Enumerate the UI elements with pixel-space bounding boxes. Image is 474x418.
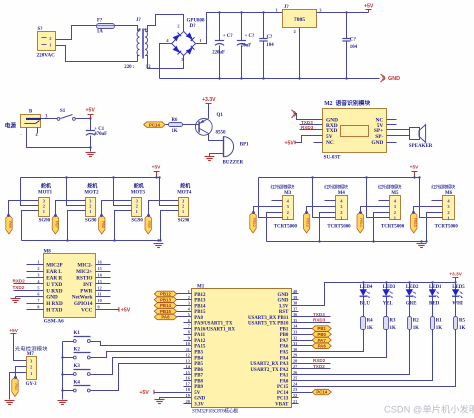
- connector S? 220VAC input: [37, 27, 56, 58]
- svg-text:16: 16: [186, 376, 190, 381]
- wire MOT4 pin3 signal to tag: [149, 201, 179, 216]
- svg-text:MIC2+: MIC2+: [76, 269, 92, 275]
- svg-text:CSDN @单片机小发明: CSDN @单片机小发明: [384, 404, 474, 415]
- bridge rectifier D? GPU808: [166, 19, 205, 63]
- svg-text:LED5: LED5: [452, 285, 465, 290]
- wire K1 to M1: [91, 342, 192, 346]
- power +5V (after switch): [86, 107, 96, 118]
- svg-text:220 :: 220 :: [124, 65, 134, 70]
- net tag PB12 (M1 pin 1): [154, 291, 191, 296]
- svg-text:C?: C?: [350, 38, 356, 43]
- net tag PB1 (M1 pin 34): [292, 326, 332, 331]
- svg-text:1: 1: [136, 209, 138, 214]
- svg-text:M6: M6: [445, 191, 453, 196]
- wire M6 pin4 stub: [432, 200, 443, 202]
- svg-text:3.3V: 3.3V: [279, 304, 289, 309]
- wire LED4 cathode to M1: [292, 330, 364, 352]
- svg-text:10: 10: [186, 341, 190, 346]
- svg-text:1: 1: [37, 260, 39, 265]
- wire power box stub: [37, 128, 39, 134]
- svg-text:PB8: PB8: [194, 379, 203, 384]
- svg-text:9: 9: [188, 335, 190, 340]
- svg-text:舵机: 舵机: [180, 183, 190, 190]
- svg-text:PB0: PB0: [280, 333, 289, 338]
- wire LED5 cathode to M1: [292, 330, 456, 387]
- wire M3 pin3 signal to tag: [254, 207, 283, 213]
- transistor Q1 8550: [195, 113, 226, 135]
- net tag PB9 (servo MOT4): [145, 214, 151, 234]
- svg-text:18: 18: [186, 387, 190, 392]
- svg-text:SG90: SG90: [85, 219, 97, 224]
- svg-text:RST: RST: [279, 310, 289, 315]
- svg-text:PWR: PWR: [80, 288, 92, 294]
- ground (M7): [5, 401, 15, 405]
- wire M3 pin1 to +5V rail: [259, 178, 283, 218]
- node DC+ junction at C 10uF: [240, 11, 242, 13]
- svg-text:电源: 电源: [5, 122, 17, 130]
- svg-text:GPU808: GPU808: [187, 19, 206, 24]
- svg-text:PA0: PA0: [280, 379, 289, 384]
- svg-text:SPEAKER: SPEAKER: [409, 144, 433, 149]
- wire M8 pin 14 (RSTIO): [96, 273, 111, 278]
- svg-text:MIC2-: MIC2-: [77, 263, 92, 269]
- wire M4 pin2 to ground rail: [318, 213, 335, 243]
- svg-text:PA11: PA11: [194, 333, 205, 338]
- wire net TXD2 (M1 USART2_TX): [292, 364, 331, 369]
- svg-text:USART2_TX PA2: USART2_TX PA2: [250, 368, 288, 373]
- svg-text:K2: K2: [74, 347, 81, 352]
- svg-text:J?: J?: [136, 18, 141, 23]
- net tag PA7 (M1 pin 32): [292, 337, 332, 342]
- svg-text:SG90: SG90: [131, 219, 143, 224]
- svg-text:U TXD: U TXD: [46, 282, 62, 288]
- wire transformer primary bottom lead: [138, 56, 140, 62]
- svg-text:M4: M4: [338, 191, 346, 196]
- wire MOT3 pin3 signal to tag: [102, 201, 132, 216]
- wire M2 SP+ to speaker: [387, 129, 410, 131]
- wire transformer secondary top to bridge AC (pin 2): [146, 15, 184, 32]
- wire MOT1 pin1 to ground rail: [22, 211, 39, 241]
- ground (IR rail): [417, 240, 427, 247]
- svg-text:LED1: LED1: [429, 285, 442, 290]
- wire M2 NC stub (left): [314, 142, 323, 144]
- resistor R4 1K: [361, 317, 374, 332]
- svg-text:GND: GND: [278, 293, 289, 298]
- svg-text:RXD2: RXD2: [313, 358, 326, 363]
- servo connector MOT4 SG90 舵机: [177, 183, 192, 224]
- push button K4: [63, 380, 91, 392]
- wire LED2 cathode to M1: [292, 330, 410, 375]
- svg-text:+5V: +5V: [86, 107, 96, 113]
- svg-text:PA10/USART1_RX: PA10/USART1_RX: [194, 327, 235, 332]
- wire M3 pin2 to ground rail: [267, 213, 283, 242]
- module M8 GSM-A6: [44, 250, 96, 325]
- LED LED4 BLU: [360, 283, 373, 317]
- wire M2 SP- to speaker: [387, 135, 410, 137]
- svg-text:1K: 1K: [367, 326, 373, 331]
- svg-text:舵机: 舵机: [41, 183, 51, 190]
- svg-text:1K: 1K: [413, 326, 419, 331]
- svg-text:BP1: BP1: [240, 143, 249, 148]
- svg-text:2: 2: [447, 210, 449, 215]
- wire net RXD3 (M1 USART3_TX): [292, 318, 331, 323]
- wire M8 pin 7 (H RXD): [27, 298, 44, 303]
- svg-text:GND: GND: [194, 397, 205, 402]
- wire M1 right pin stubs: [292, 294, 299, 404]
- wire power return: [27, 128, 91, 152]
- svg-text:C?: C?: [267, 35, 273, 40]
- svg-text:+3.3V: +3.3V: [449, 272, 462, 278]
- IR module M6 TCRT5000 红外避障模块: [431, 184, 458, 230]
- servo connector MOT3 SG90 舵机: [131, 183, 146, 224]
- svg-text:PB15: PB15: [194, 310, 206, 315]
- svg-text:PC14: PC14: [316, 390, 328, 395]
- svg-text:PC15: PC15: [277, 385, 289, 390]
- svg-text:PA9/USART1_TX: PA9/USART1_TX: [194, 322, 233, 327]
- ground (buttons): [58, 401, 68, 405]
- svg-text:+3.3V: +3.3V: [202, 97, 216, 103]
- wire fuse to transformer primary top: [115, 26, 140, 31]
- svg-text:红外避障模块: 红外避障模块: [271, 184, 295, 191]
- net tag PB15 (IR M6): [411, 211, 417, 233]
- wire M5 pin1 to +5V rail: [365, 176, 389, 217]
- svg-text:PA15: PA15: [194, 345, 206, 350]
- svg-text:1: 1: [43, 209, 45, 214]
- push button K2: [63, 347, 91, 359]
- node +5V junction: [89, 117, 91, 119]
- svg-text:D?: D?: [190, 24, 197, 29]
- svg-text:+5V: +5V: [9, 328, 18, 334]
- svg-text:1K: 1K: [459, 326, 465, 331]
- wire ground rail (servo row): [22, 240, 161, 242]
- svg-text:PB15: PB15: [413, 218, 417, 227]
- wire button common rail: [62, 342, 64, 400]
- capacitor C? 10uF: [237, 13, 255, 79]
- IR module M4 TCRT5000 红外避障模块: [324, 184, 351, 230]
- svg-text:PB1: PB1: [317, 326, 326, 331]
- svg-text:3: 3: [37, 273, 39, 278]
- wire M7 pin2 to tag: [16, 367, 27, 378]
- svg-text:12: 12: [186, 353, 190, 358]
- svg-text:VBAT: VBAT: [275, 402, 289, 407]
- IR module M5 TCRT5000 红外避障模块: [378, 184, 405, 230]
- speaker SPEAKER: [409, 125, 433, 149]
- svg-text:1: 1: [340, 216, 342, 221]
- svg-text:104: 104: [266, 43, 274, 48]
- power +3.3V (buzzer): [202, 97, 216, 119]
- resistor R3 1K: [384, 317, 397, 332]
- wire M8 pin 3 (EAR R): [27, 273, 44, 278]
- capacitor C1 470uF: [86, 119, 107, 148]
- svg-text:R1: R1: [436, 319, 443, 324]
- svg-text:PA5: PA5: [280, 351, 289, 356]
- net tag PB0 (M1 pin 33): [292, 332, 332, 337]
- svg-text:M5: M5: [391, 191, 399, 196]
- svg-text:1: 1: [447, 216, 449, 221]
- svg-text:PB13: PB13: [160, 297, 172, 302]
- wire M1 left pin stubs: [184, 323, 192, 404]
- svg-text:RXD2: RXD2: [13, 279, 26, 284]
- wire M3 pin4 stub: [272, 200, 283, 202]
- svg-text:PA8: PA8: [194, 316, 203, 321]
- svg-text:+5V: +5V: [410, 165, 419, 171]
- net tag PB12 (IR M3): [250, 211, 256, 233]
- svg-text:S1: S1: [60, 109, 66, 114]
- svg-text:USART2_RX PA3: USART2_RX PA3: [250, 362, 289, 367]
- wire M8 pin 8 (H TXD): [27, 305, 44, 310]
- svg-text:10uF: 10uF: [241, 43, 251, 48]
- svg-text:6: 6: [37, 292, 39, 297]
- svg-text:2: 2: [30, 365, 32, 370]
- svg-text:RXD3: RXD3: [313, 318, 326, 323]
- svg-text:H RXD: H RXD: [46, 301, 63, 307]
- resistor R5 1K: [454, 317, 466, 332]
- svg-text:PB14: PB14: [160, 303, 172, 308]
- module M2 语音识别模块 SU-03T: [323, 99, 387, 160]
- svg-text:13: 13: [186, 358, 190, 363]
- wire M8 pin 15 (MIC2+): [96, 266, 111, 271]
- svg-text:M1: M1: [197, 285, 205, 290]
- svg-text:1: 1: [287, 216, 289, 221]
- svg-text:SG90: SG90: [178, 219, 190, 224]
- wire ground rail: [160, 78, 380, 80]
- node LED rail junctions: [362, 281, 456, 283]
- svg-text:LED4: LED4: [360, 285, 373, 290]
- net tag PB14 (M1 pin 3): [154, 303, 191, 308]
- transformer J? 220:12: [124, 18, 151, 70]
- net tag PA8 (M1 pin 5): [154, 314, 191, 319]
- ground (M2 GND pin): [292, 110, 323, 120]
- svg-text:M7: M7: [27, 352, 35, 357]
- LED LED2 GRE: [406, 283, 419, 317]
- wire 220VAC pin1 to transformer primary bottom: [56, 46, 138, 62]
- wire K4 to M1: [91, 364, 192, 391]
- capacitor C? 104 (output): [342, 13, 357, 79]
- power +5V (M8 VCC): [119, 307, 131, 313]
- wire M4 pin3 signal to tag: [307, 207, 336, 213]
- svg-text:MOT1: MOT1: [38, 190, 53, 195]
- svg-text:RED: RED: [429, 301, 440, 306]
- svg-text:PB9: PB9: [194, 385, 203, 390]
- power +5V (servo rail): [152, 165, 161, 179]
- svg-text:EAR L: EAR L: [46, 269, 62, 275]
- wire 220VAC pin2 to fuse: [56, 26, 97, 40]
- svg-text:TXD3: TXD3: [313, 312, 325, 317]
- wire M6 pin2 to ground rail: [425, 213, 442, 243]
- module M1 STM32F103C8T6 core board: [186, 285, 298, 415]
- wire K3 to M1: [91, 358, 192, 375]
- push button K1: [63, 331, 91, 343]
- svg-text:7805: 7805: [294, 17, 305, 23]
- power +5V to M2 5V pin: [285, 136, 323, 147]
- svg-text:15: 15: [98, 266, 102, 271]
- svg-text:SU-03T: SU-03T: [324, 154, 342, 160]
- svg-text:USART3_RX PB11: USART3_RX PB11: [248, 316, 289, 321]
- net tag PB8 (servo MOT3): [99, 214, 105, 234]
- svg-text:32: 32: [293, 335, 297, 340]
- svg-text:J?: J?: [284, 5, 289, 10]
- svg-text:GPIO14: GPIO14: [74, 301, 93, 307]
- svg-text:470uF: 470uF: [94, 132, 107, 137]
- svg-text:NetWork: NetWork: [72, 295, 93, 301]
- wire R6 to Q1 base: [183, 124, 200, 126]
- watermark CSDN: [384, 404, 474, 415]
- svg-text:220VAC: 220VAC: [37, 53, 56, 59]
- svg-text:5V: 5V: [194, 391, 200, 396]
- wire net RXD3 to M2 TXD: [300, 125, 323, 130]
- svg-text:12: 12: [146, 65, 151, 70]
- wire LED3 cathode to M1: [292, 330, 387, 358]
- svg-text:R2: R2: [413, 319, 420, 324]
- net tag PB7 (servo MOT2): [52, 214, 58, 234]
- wire PC14 to R6: [166, 124, 169, 126]
- wire M5 pin3 signal to tag: [361, 207, 390, 213]
- svg-text:RXD3: RXD3: [301, 125, 314, 130]
- svg-text:8: 8: [188, 330, 190, 335]
- svg-text:TXD2: TXD2: [313, 364, 325, 369]
- svg-text:1K: 1K: [172, 129, 178, 134]
- svg-text:PA7: PA7: [318, 338, 327, 343]
- svg-text:K1: K1: [74, 331, 81, 336]
- wire MOT4 pin1 to ground rail: [159, 211, 178, 242]
- wire net TXD3 to M2 RXD: [300, 120, 323, 125]
- svg-text:M3: M3: [284, 191, 292, 196]
- net tag PB13 (IR M4): [303, 211, 309, 233]
- svg-text:1: 1: [182, 209, 184, 214]
- svg-text:INT: INT: [83, 282, 93, 288]
- svg-text:PA6: PA6: [280, 345, 289, 350]
- svg-text:MOT3: MOT3: [131, 190, 146, 195]
- wire Q1 collector to buzzer: [209, 134, 224, 141]
- svg-text:12: 12: [98, 285, 102, 290]
- svg-text:PA8: PA8: [161, 315, 170, 320]
- svg-text:U RXD: U RXD: [46, 288, 63, 294]
- svg-text:EAR R: EAR R: [46, 276, 62, 282]
- servo connector MOT2 SG90 舵机: [84, 183, 99, 224]
- svg-text:2: 2: [37, 266, 39, 271]
- svg-text:红外避障模块: 红外避障模块: [324, 184, 348, 191]
- svg-text:+5V: +5V: [364, 4, 374, 10]
- svg-text:舵机: 舵机: [87, 183, 97, 190]
- ground (power input): [86, 153, 96, 157]
- svg-text:TCRT5000: TCRT5000: [274, 224, 298, 229]
- svg-text:BUZZER: BUZZER: [223, 160, 244, 165]
- node DC+ junction at C 220uF: [218, 11, 220, 13]
- svg-text:GND: GND: [371, 140, 383, 146]
- svg-text:舵机: 舵机: [134, 183, 144, 190]
- wire bridge plus (pin 1) to DC rail: [196, 13, 283, 44]
- wire MOT2 pin1 to ground rail: [66, 211, 85, 242]
- ground (servo rail): [154, 239, 164, 247]
- IR module M3 TCRT5000 红外避障模块: [271, 184, 298, 230]
- svg-text:NC: NC: [326, 140, 334, 146]
- svg-text:红外避障模块: 红外避障模块: [431, 184, 455, 191]
- svg-text:S?: S?: [38, 27, 44, 32]
- svg-text:USART3_TX PB10: USART3_TX PB10: [248, 322, 289, 327]
- wire M8 pin 13 (INT): [96, 279, 111, 284]
- svg-text:GY-3: GY-3: [26, 382, 38, 387]
- svg-text:→: →: [19, 131, 23, 136]
- svg-text:1: 1: [30, 371, 32, 376]
- svg-text:PB9: PB9: [147, 221, 151, 228]
- svg-text:29: 29: [293, 353, 297, 358]
- net tag PC14 (M1 pin 23): [292, 389, 332, 394]
- svg-text:11: 11: [98, 292, 102, 297]
- svg-text:BLU: BLU: [360, 301, 371, 306]
- wire M8 pin 12 (PWR): [96, 285, 111, 290]
- resistor R6 1K: [169, 118, 183, 134]
- switch S1: [57, 109, 75, 120]
- svg-text:TXD2: TXD2: [13, 285, 25, 290]
- svg-text:1K: 1K: [436, 326, 442, 331]
- wire MOT2 pin3 signal to tag: [56, 201, 86, 216]
- svg-text:PB1: PB1: [280, 327, 289, 332]
- wire M1 3.3V pin 38 to LED rail: [292, 283, 364, 306]
- svg-text:1K: 1K: [390, 326, 396, 331]
- module M7 GY-3 光电检测模块: [15, 345, 48, 388]
- LED LED5 WHI: [452, 283, 465, 317]
- svg-text:PB7: PB7: [54, 221, 58, 228]
- svg-text:Q1: Q1: [217, 113, 224, 118]
- svg-text:PA7: PA7: [280, 339, 289, 344]
- svg-text:17: 17: [186, 381, 190, 386]
- svg-text:7: 7: [188, 324, 190, 329]
- svg-text:R3: R3: [390, 319, 397, 324]
- svg-text:220uF: 220uF: [212, 51, 225, 56]
- svg-text:8: 8: [37, 305, 39, 310]
- wire M5 pin2 to ground rail: [372, 213, 389, 243]
- svg-text:+5V: +5V: [152, 165, 161, 171]
- power +5V (M1 pin 18): [140, 390, 192, 396]
- wire M8 pin 1 (MIC2P): [27, 260, 44, 265]
- wire transformer secondary bottom to bridge AC (pin 3): [146, 56, 184, 69]
- svg-text:LED2: LED2: [406, 285, 419, 290]
- svg-text:PB12: PB12: [160, 292, 172, 297]
- push button K3: [63, 364, 91, 376]
- wire MOT3 pin1 to ground rail: [113, 211, 131, 242]
- servo connector MOT1 SG90 舵机: [38, 183, 53, 224]
- svg-text:+5V: +5V: [285, 141, 295, 147]
- net tag PA4 (M7): [12, 376, 18, 396]
- svg-text:PB14: PB14: [359, 218, 363, 227]
- buzzer BP1: [223, 137, 250, 166]
- wire M6 pin3 signal to tag: [414, 207, 443, 213]
- svg-text:M2 语音识别模块: M2 语音识别模块: [324, 99, 370, 107]
- svg-text:PB14: PB14: [194, 304, 206, 309]
- svg-text:PB0: PB0: [317, 332, 326, 337]
- svg-text:PA1: PA1: [280, 374, 289, 379]
- svg-text:K4: K4: [74, 380, 81, 385]
- fuse F? 1A: [97, 19, 115, 35]
- ground GND (power supply): [381, 74, 401, 82]
- wire M8 pin 11 (NetWork): [96, 292, 111, 297]
- resistor R2 1K: [408, 317, 420, 332]
- svg-text:R4: R4: [367, 319, 374, 324]
- svg-text:2: 2: [49, 36, 51, 41]
- svg-text:TCRT5000: TCRT5000: [327, 224, 351, 229]
- wire M8 pin 10 (GPIO14): [96, 298, 111, 303]
- svg-text:PC13: PC13: [277, 397, 289, 402]
- capacitor C? 104 (input): [259, 13, 274, 79]
- LED LED1 RED: [429, 283, 442, 317]
- node return junction: [89, 146, 91, 148]
- net tag PB14 (IR M5): [357, 211, 363, 233]
- wire switch to +5V node: [76, 118, 91, 120]
- ground (M1 pin 19): [155, 400, 165, 404]
- svg-text:MIC2P: MIC2P: [46, 263, 63, 269]
- wire 7805 GND pin 2 to ground rail: [299, 28, 301, 79]
- net tag PB13 (M1 pin 2): [154, 297, 191, 302]
